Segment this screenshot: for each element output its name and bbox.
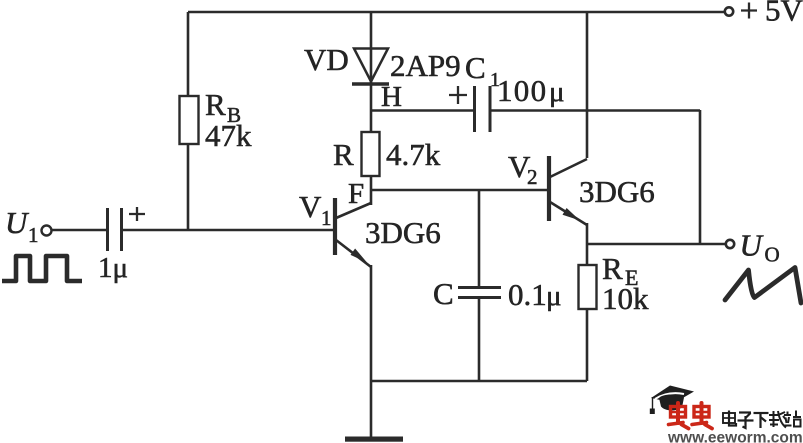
svg-text:4.7k: 4.7k: [386, 137, 441, 172]
svg-text:10k: 10k: [602, 281, 649, 316]
svg-text:0.1: 0.1: [508, 277, 547, 312]
svg-text:μ: μ: [546, 280, 562, 312]
svg-text:C: C: [465, 50, 486, 85]
svg-text:V: V: [299, 189, 322, 224]
svg-text:www.eeworm.com: www.eeworm.com: [667, 429, 803, 443]
svg-text:U: U: [5, 205, 30, 240]
svg-text:VD: VD: [304, 42, 349, 77]
svg-text:H: H: [381, 81, 402, 113]
svg-text:R: R: [205, 87, 226, 122]
svg-text:2AP9: 2AP9: [390, 48, 461, 83]
svg-text:2: 2: [527, 165, 538, 189]
svg-text:F: F: [348, 178, 364, 210]
svg-text:47k: 47k: [205, 118, 252, 153]
svg-text:1: 1: [321, 206, 332, 230]
svg-text:μ: μ: [549, 76, 565, 108]
svg-text:1μ: 1μ: [98, 252, 128, 284]
svg-text:U: U: [740, 228, 765, 263]
svg-text:O: O: [765, 243, 780, 267]
svg-text:C: C: [433, 276, 454, 311]
svg-text:3DG6: 3DG6: [365, 215, 441, 250]
svg-text:100: 100: [497, 73, 547, 108]
svg-text:3DG6: 3DG6: [579, 174, 655, 209]
svg-text:5V: 5V: [765, 0, 803, 28]
svg-text:1: 1: [28, 223, 39, 247]
svg-text:R: R: [333, 137, 354, 172]
